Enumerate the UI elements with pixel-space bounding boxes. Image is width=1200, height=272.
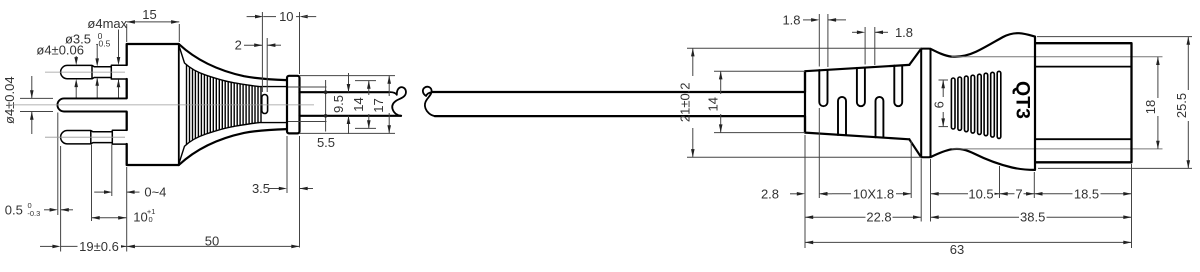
plug cone ribs: [187, 65, 262, 144]
dim 25.5 ext lines: [1037, 36, 1192, 38]
plug body slab right edge: [178, 44, 180, 165]
leader phi4max: [118, 30, 120, 61]
svg-text:63: 63: [950, 242, 964, 257]
ext strain relief left: [804, 135, 806, 248]
plug cone inner bottom edge: [179, 123, 259, 164]
dim 10 line: [92, 217, 127, 219]
dim 21 line: [692, 48, 694, 76]
plug slot hole: [262, 95, 268, 114]
dim 7 line: [1000, 193, 1035, 195]
ext bars right: [999, 166, 1001, 198]
svg-text:3.5: 3.5: [252, 181, 270, 196]
plug sleeve break curl: [388, 87, 406, 116]
svg-text:10X1.8: 10X1.8: [853, 186, 894, 201]
dim 14L ticks: [355, 80, 376, 82]
dim 10x1.8 line: [832, 193, 911, 195]
svg-text:22.8: 22.8: [866, 210, 891, 225]
ext ring right: [930, 159, 932, 222]
plug neck line bottom: [259, 122, 288, 124]
svg-text:14: 14: [705, 97, 720, 111]
ext ring left: [920, 159, 922, 222]
dim 50 line: [127, 245, 300, 247]
dim 10top ext lines: [261, 12, 263, 38]
strain relief slot 4 bottom: [876, 97, 884, 137]
dim 18 line: [1157, 57, 1159, 98]
plug cable sleeve: [300, 92, 402, 116]
svg-text:1.8: 1.8: [895, 25, 913, 40]
dim 6 line: [942, 80, 944, 97]
dim 0.5 ext lines: [57, 113, 59, 216]
dim 17 ext lines: [300, 75, 396, 77]
ring band: [921, 49, 930, 158]
dim 3.5 ext lines: [286, 136, 288, 193]
centerline top pin: [45, 71, 125, 73]
svg-text:9.5: 9.5: [331, 95, 346, 113]
dim 10x1.8 text: [851, 188, 896, 200]
cable break curl: [423, 87, 435, 116]
svg-text:-0.5: -0.5: [96, 38, 111, 48]
svg-text:25.5: 25.5: [1174, 93, 1189, 118]
pin L2 bottom: [61, 130, 127, 144]
dim 38.5 line: [931, 216, 1132, 218]
body top profile: [931, 33, 1036, 57]
flare bottom: [909, 139, 921, 157]
dim 0-4 line: [94, 191, 105, 193]
leader phi3.5: [96, 45, 98, 62]
centerline main axis: [8, 104, 314, 106]
flare top: [909, 49, 921, 65]
svg-text:2: 2: [235, 38, 242, 53]
strain relief slot 5 top: [894, 66, 902, 107]
face outline: [1036, 43, 1132, 162]
dim 17 line: [388, 76, 390, 96]
dim 2 line: [244, 44, 262, 46]
face inner line bottom: [1036, 138, 1132, 140]
strain relief left edge: [804, 71, 806, 132]
dim 10top line: [247, 16, 256, 18]
dim phi4pm004 line: [31, 76, 33, 98]
pin L1 top: [61, 65, 127, 79]
strain relief slot 3 top: [857, 68, 865, 106]
dim 3.5 line: [269, 188, 280, 190]
strain relief slot 1 top: [819, 70, 827, 106]
grip ribs block: [951, 78, 955, 129]
dim 38.5 text: [1019, 211, 1047, 223]
ext face right: [1131, 164, 1133, 248]
dim 21 ext lines: [687, 47, 921, 49]
strain relief outline: [805, 65, 909, 139]
dim 0.5 line: [44, 209, 51, 211]
svg-text:2.8: 2.8: [761, 186, 779, 201]
plug cone outer bottom: [179, 129, 287, 165]
svg-text:6: 6: [931, 101, 946, 108]
dim 14L line: [368, 81, 370, 95]
svg-text:14: 14: [351, 97, 366, 111]
dim 15 ext lines: [126, 24, 128, 42]
strain relief slot 2 bottom: [838, 97, 846, 135]
dim 10.5 text: [968, 188, 995, 200]
svg-text:-0.3: -0.3: [27, 209, 40, 218]
dim 9.5 line: [348, 73, 350, 92]
pin E earth middle: [57, 98, 126, 111]
ext strain relief right: [910, 141, 912, 198]
svg-text:15: 15: [142, 7, 156, 22]
svg-text:21±0.2: 21±0.2: [678, 82, 693, 122]
dim 10 ext lines: [91, 145, 93, 221]
svg-text:10.5: 10.5: [968, 186, 993, 201]
dim 1.8a line: [803, 19, 812, 21]
svg-text:18.5: 18.5: [1074, 186, 1099, 201]
dim row ext face: [126, 167, 128, 252]
svg-text:QT3: QT3: [1012, 81, 1034, 119]
dim 6 ticks: [939, 79, 949, 81]
svg-text:17: 17: [371, 98, 386, 112]
dim 2.8 line: [790, 193, 798, 195]
aux lines sleeve: [288, 86, 327, 88]
dim 18.5 text: [1073, 188, 1101, 200]
leader phi4pm006: [75, 56, 77, 61]
dim 63 line: [805, 241, 1132, 243]
plug cone inner top edge: [179, 46, 259, 87]
svg-text:7: 7: [1015, 186, 1022, 201]
dim 7 text: [1015, 188, 1024, 200]
plug body front slab: [127, 44, 179, 165]
dim 10.5 line: [931, 193, 1000, 195]
plug cone outer top: [179, 44, 287, 80]
svg-text:ø4±0.06: ø4±0.06: [36, 42, 84, 57]
svg-text:ø4max: ø4max: [87, 16, 127, 31]
svg-text:5.5: 5.5: [317, 135, 335, 150]
svg-text:0~4: 0~4: [144, 185, 166, 200]
cable: [432, 92, 805, 116]
tangent line bottom: [952, 148, 1163, 150]
dim 25.5 line: [1187, 37, 1189, 90]
dim 1.8b line: [852, 31, 858, 33]
tangent line top: [952, 56, 1163, 58]
plug collar: [287, 76, 300, 134]
body bottom profile: [931, 149, 1036, 170]
ext slot A left: [818, 108, 820, 198]
svg-text:10: 10: [133, 209, 147, 224]
dim 14R ext lines: [714, 70, 805, 72]
dim 19 line: [40, 245, 54, 247]
body end disc edge: [1034, 37, 1036, 170]
svg-text:38.5: 38.5: [1020, 210, 1045, 225]
ext body end: [1033, 172, 1035, 198]
svg-text:0: 0: [149, 215, 153, 224]
dim 1.8a ext lines: [818, 14, 820, 67]
svg-text:50: 50: [205, 234, 219, 249]
dim dots line: [325, 80, 327, 132]
svg-text:0.5: 0.5: [5, 202, 23, 217]
svg-text:18: 18: [1143, 100, 1158, 114]
centerline bottom pin: [45, 136, 125, 138]
dim 22.8 line: [805, 216, 921, 218]
plug neck line top: [259, 86, 288, 88]
dim 18.5 line: [1034, 193, 1131, 195]
face inner line top: [1036, 66, 1132, 68]
dim 15 line: [127, 21, 180, 23]
svg-text:10: 10: [279, 9, 293, 24]
svg-text:1.8: 1.8: [782, 12, 800, 27]
svg-text:ø4±0.04: ø4±0.04: [2, 76, 17, 124]
dim 1.8b ext lines: [864, 27, 866, 65]
dim 19 text: [78, 240, 122, 253]
dim 2 ext lines: [261, 38, 263, 92]
dim 0-4 ext lines: [111, 145, 113, 196]
dim 22.8 text: [866, 211, 893, 223]
dim phi4pm004 ext: [20, 97, 53, 99]
dim 14R line: [720, 71, 722, 94]
svg-text:19±0.6: 19±0.6: [79, 239, 119, 254]
